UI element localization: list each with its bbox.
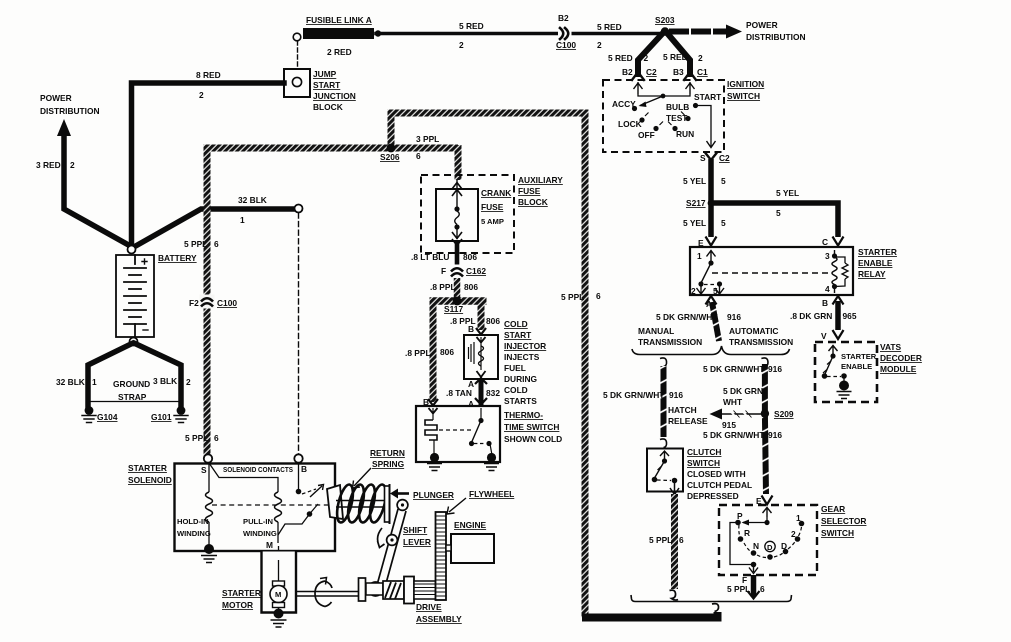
svg-text:AUTOMATIC: AUTOMATIC <box>729 326 778 336</box>
splice S203 <box>661 27 669 35</box>
svg-text:FUSE: FUSE <box>481 202 504 212</box>
svg-text:.8 DK GRN: .8 DK GRN <box>790 311 832 321</box>
svg-text:PLUNGER: PLUNGER <box>413 490 454 500</box>
terminal Y at V <box>833 330 844 339</box>
splice S217 <box>708 200 715 207</box>
dashed thick feed to power distribution arrow <box>672 29 726 35</box>
hook at clutch switch <box>660 439 667 448</box>
wire .8 PPL C162 to S117 <box>454 278 461 299</box>
svg-text:C1: C1 <box>697 67 708 77</box>
svg-text:WHT: WHT <box>723 397 743 407</box>
svg-text:2: 2 <box>791 529 796 539</box>
power distribution arrowhead (left) <box>57 119 71 136</box>
plunger end plate <box>385 486 390 522</box>
svg-text:5 RED: 5 RED <box>597 22 622 32</box>
svg-text:G101: G101 <box>151 412 172 422</box>
svg-text:WINDING: WINDING <box>243 529 277 538</box>
relay armature <box>701 263 711 283</box>
power distribution arrowhead <box>726 25 742 39</box>
terminal Y at B (exit) <box>833 296 844 305</box>
svg-text:P: P <box>737 511 743 521</box>
svg-text:STARTER: STARTER <box>128 463 167 473</box>
hold-in ground <box>204 544 214 554</box>
svg-text:FLYWHEEL: FLYWHEEL <box>469 489 514 499</box>
svg-text:A: A <box>468 399 474 409</box>
pin 5 arrow down <box>715 284 724 294</box>
battery top node <box>128 246 136 254</box>
svg-text:5: 5 <box>713 286 718 296</box>
ground G104 <box>85 406 94 415</box>
svg-text:BLOCK: BLOCK <box>313 102 343 112</box>
svg-text:806: 806 <box>440 347 454 357</box>
svg-text:B: B <box>468 324 474 334</box>
wire 5 YEL branch to relay C <box>711 203 838 237</box>
svg-text:STARTS: STARTS <box>504 396 537 406</box>
svg-text:WINDING: WINDING <box>177 529 211 538</box>
svg-text:GEAR: GEAR <box>821 504 845 514</box>
switch arm <box>480 408 482 419</box>
motor ground <box>274 609 284 619</box>
svg-text:1: 1 <box>796 513 801 523</box>
plunger dashed actuation line <box>212 504 330 506</box>
wire S203 to B3/C1 terminal <box>667 33 690 74</box>
svg-text:2: 2 <box>691 286 696 296</box>
svg-text:2: 2 <box>644 53 649 63</box>
wire .8 PPL S117 to injector (hatched) <box>478 299 485 330</box>
svg-text:FUEL: FUEL <box>504 363 526 373</box>
svg-text:5: 5 <box>721 176 726 186</box>
return spring pointer <box>353 468 372 488</box>
hook automatic branch <box>761 358 768 367</box>
svg-text:CLOSED WITH: CLOSED WITH <box>687 469 746 479</box>
svg-text:5 DK GRN/WHT: 5 DK GRN/WHT <box>656 312 718 322</box>
svg-text:VATS: VATS <box>880 342 902 352</box>
flywheel pointer <box>447 498 466 514</box>
svg-text:CRANK: CRANK <box>481 188 511 198</box>
svg-text:5 DK GRN/WHT: 5 DK GRN/WHT <box>703 364 765 374</box>
svg-text:HOLD-IN: HOLD-IN <box>177 517 209 526</box>
svg-text:F: F <box>441 266 446 276</box>
svg-text:915: 915 <box>722 420 736 430</box>
svg-text:C100: C100 <box>217 298 237 308</box>
svg-text:6: 6 <box>679 535 684 545</box>
svg-text:5 DK GRN/: 5 DK GRN/ <box>723 386 766 396</box>
svg-text:2 RED: 2 RED <box>327 47 352 57</box>
wire 5 DK GRN/WHT from relay A <box>712 302 719 341</box>
svg-text:START: START <box>313 80 341 90</box>
svg-text:E: E <box>698 238 704 248</box>
dashed arc through positions <box>739 525 802 558</box>
start wire to S/C2 <box>696 106 712 148</box>
svg-text:6: 6 <box>416 151 421 161</box>
dashed actuation line <box>712 272 830 274</box>
svg-text:STARTER: STARTER <box>222 588 261 598</box>
wire 5 PPL long right drop (hatched) <box>582 113 589 618</box>
fuse element <box>456 180 458 208</box>
svg-text:SOLENOID: SOLENOID <box>128 475 172 485</box>
parallel resistor <box>835 257 846 287</box>
fusible link left terminal circle <box>293 33 301 41</box>
svg-text:M: M <box>275 590 281 599</box>
svg-text:BATTERY: BATTERY <box>158 253 197 263</box>
svg-text:SWITCH: SWITCH <box>727 91 760 101</box>
relay coil <box>832 253 837 258</box>
svg-text:MODULE: MODULE <box>880 364 917 374</box>
feed bar between terminals <box>638 94 690 96</box>
svg-text:.8 TAN: .8 TAN <box>446 388 472 398</box>
wire S203 to B2/C2 terminal <box>638 33 663 74</box>
svg-text:V: V <box>821 331 827 341</box>
svg-text:5 PPL: 5 PPL <box>185 433 208 443</box>
svg-text:JUMP: JUMP <box>313 69 337 79</box>
terminal Y at C <box>833 237 844 246</box>
svg-text:3 BLK: 3 BLK <box>153 376 177 386</box>
svg-text:916: 916 <box>669 390 683 400</box>
terminal Y at injector B <box>476 328 486 335</box>
svg-text:916: 916 <box>768 364 782 374</box>
svg-text:5: 5 <box>721 218 726 228</box>
pin 1 arrow <box>707 250 716 261</box>
connector F/C162 <box>450 265 465 279</box>
svg-text:S209: S209 <box>774 409 794 419</box>
S terminal circle <box>204 454 212 462</box>
svg-text:TEST: TEST <box>666 113 688 123</box>
svg-text:806: 806 <box>486 316 500 326</box>
actuation dashed link <box>439 429 471 431</box>
svg-text:START: START <box>694 92 722 102</box>
svg-text:R: R <box>744 528 750 538</box>
battery body <box>116 255 154 337</box>
svg-text:HATCH: HATCH <box>668 405 697 415</box>
svg-text:LEVER: LEVER <box>403 537 431 547</box>
wire drop into aux fuse block (hatched) <box>455 145 462 180</box>
svg-text:1: 1 <box>697 251 702 261</box>
svg-text:OFF: OFF <box>638 130 655 140</box>
pull-in winding <box>275 492 282 522</box>
svg-text:2: 2 <box>459 40 464 50</box>
svg-text:INJECTOR: INJECTOR <box>504 341 546 351</box>
svg-text:S203: S203 <box>655 15 675 25</box>
wire 5 PPL battery column (hatched) <box>204 148 211 456</box>
svg-text:START: START <box>504 330 532 340</box>
circled D indicator <box>765 541 775 551</box>
svg-text:6: 6 <box>760 584 765 594</box>
svg-text:2: 2 <box>597 40 602 50</box>
svg-text:832: 832 <box>486 388 500 398</box>
wire 5 PPL gear selector F to bus <box>751 575 757 597</box>
svg-text:STARTER: STARTER <box>841 352 877 361</box>
svg-text:5 AMP: 5 AMP <box>481 217 504 226</box>
dashed drop from fusible link to jump start block <box>297 41 299 76</box>
wire 3 RED to power distribution (left) <box>64 131 133 248</box>
svg-text:5 RED: 5 RED <box>663 52 688 62</box>
svg-text:TIME SWITCH: TIME SWITCH <box>504 422 559 432</box>
wire 5 DK GRN/WHT S209 down to gear selector <box>765 414 766 494</box>
svg-text:4: 4 <box>825 284 830 294</box>
rotor arm to ACCY <box>640 96 663 106</box>
thick feed bar to starter circuit <box>582 612 718 618</box>
svg-text:JUNCTION: JUNCTION <box>313 91 356 101</box>
svg-text:S206: S206 <box>380 152 400 162</box>
connector F2/C100 on 5 PPL wire <box>200 295 215 309</box>
wire 3 PPL horizontal to S206 (hatched) <box>204 145 459 152</box>
pin 2 arrow down <box>697 284 706 294</box>
svg-text:FUSIBLE LINK A: FUSIBLE LINK A <box>306 15 372 25</box>
svg-text:2: 2 <box>698 53 703 63</box>
pin 3 / 4 stubs <box>834 250 836 293</box>
svg-text:POWER: POWER <box>40 93 72 103</box>
S internal wiring <box>209 463 278 492</box>
svg-text:B3: B3 <box>673 67 684 77</box>
svg-text:BLOCK: BLOCK <box>518 197 548 207</box>
position dots <box>632 106 637 111</box>
hold-in winding <box>206 492 213 522</box>
svg-text:S: S <box>700 153 706 163</box>
wire 5 DK GRN/WHT manual branch <box>661 366 667 437</box>
terminal Y at E <box>706 237 717 246</box>
terminal arrows into switch <box>634 82 643 94</box>
svg-text:SHOWN COLD: SHOWN COLD <box>504 434 562 444</box>
svg-text:ACCY: ACCY <box>612 99 636 109</box>
svg-text:3 RED: 3 RED <box>36 160 61 170</box>
svg-text:S217: S217 <box>686 198 706 208</box>
svg-text:B2: B2 <box>558 13 569 23</box>
B terminal circle <box>294 454 302 462</box>
svg-text:LOCK: LOCK <box>618 119 642 129</box>
position dots on arc <box>738 536 744 542</box>
wire 5 PPL clutch switch to bus (hatched) <box>671 494 678 589</box>
svg-text:STRAP: STRAP <box>118 392 147 402</box>
svg-text:.8 PPL: .8 PPL <box>405 348 431 358</box>
svg-text:COLD: COLD <box>504 385 528 395</box>
wire 5 PPL top horizontal (hatched) <box>388 110 589 117</box>
svg-text:B: B <box>423 397 429 407</box>
terminal Y at E <box>762 496 773 505</box>
jump start junction block <box>284 69 310 97</box>
breakaway squiggle to feed bar <box>712 604 719 612</box>
crank fuse box <box>436 189 478 241</box>
svg-text:GROUND: GROUND <box>113 379 150 389</box>
svg-text:C100: C100 <box>556 40 576 50</box>
wire 5 DK GRN/WHT automatic branch to S209 <box>762 364 768 414</box>
fusible link A body <box>303 28 374 39</box>
svg-text:5 YEL: 5 YEL <box>683 176 706 186</box>
B contact <box>298 463 300 489</box>
svg-text:B: B <box>301 464 307 474</box>
rotation arrow on shaft <box>315 581 332 607</box>
terminal Y at S/C2 <box>705 153 717 161</box>
wire .8 PPL S117 to thermo switch (hatched) <box>430 299 437 402</box>
svg-text:SWITCH: SWITCH <box>821 528 854 538</box>
wire 8 RED battery to jump start block <box>132 83 285 245</box>
svg-text:5: 5 <box>776 208 781 218</box>
wire riser S206 up (hatched) <box>388 113 395 151</box>
svg-text:6: 6 <box>214 433 219 443</box>
svg-text:RUN: RUN <box>676 129 694 139</box>
splice S206 <box>387 144 396 153</box>
svg-text:INJECTS: INJECTS <box>504 352 540 362</box>
splice S117 <box>430 297 487 305</box>
plunger head block <box>327 485 343 519</box>
svg-text:2: 2 <box>70 160 75 170</box>
svg-text:BULB: BULB <box>666 102 689 112</box>
terminal Y at B3/C1 <box>684 72 696 80</box>
splice S209 <box>761 409 769 417</box>
svg-text:ENABLE: ENABLE <box>858 258 893 268</box>
ground G101 <box>177 406 186 415</box>
svg-text:CLUTCH: CLUTCH <box>687 447 721 457</box>
svg-text:CLUTCH PEDAL: CLUTCH PEDAL <box>687 480 752 490</box>
svg-text:N: N <box>753 541 759 551</box>
svg-text:5 PPL: 5 PPL <box>184 239 207 249</box>
thermo ground right <box>487 453 496 462</box>
svg-text:TRANSMISSION: TRANSMISSION <box>638 337 702 347</box>
thermo ground left <box>430 453 439 462</box>
svg-text:5 DK GRN/WHT: 5 DK GRN/WHT <box>603 390 665 400</box>
P to F route <box>730 523 754 565</box>
svg-text:S: S <box>201 465 207 475</box>
svg-text:ENABLE: ENABLE <box>841 362 872 371</box>
svg-text:6: 6 <box>596 291 601 301</box>
svg-text:5 YEL: 5 YEL <box>776 188 799 198</box>
svg-text:THERMO-: THERMO- <box>504 410 543 420</box>
svg-text:916: 916 <box>768 430 782 440</box>
svg-text:1: 1 <box>240 215 245 225</box>
wire .8 LT BLU fuse to C162 <box>455 241 460 265</box>
hatch release arrowhead <box>710 409 723 420</box>
junction dot at fusible link right end <box>375 30 381 36</box>
motor shaft <box>296 592 362 597</box>
svg-text:806: 806 <box>463 252 477 262</box>
terminal Y at A (exit) <box>706 296 717 305</box>
ignition switch box (dashed) <box>603 80 724 152</box>
svg-text:S117: S117 <box>444 304 463 314</box>
terminal Y at thermo B <box>428 399 438 406</box>
svg-text:8 RED: 8 RED <box>196 70 221 80</box>
svg-text:E: E <box>756 496 762 506</box>
moving contact arm <box>302 489 316 494</box>
svg-text:32 BLK: 32 BLK <box>238 195 267 205</box>
plunger pointer arrow <box>398 492 409 495</box>
wire 5 YEL ignition to relay E <box>708 159 714 237</box>
wire .8 DK GRN relay B to VATS V <box>835 301 841 330</box>
svg-text:F2: F2 <box>189 298 199 308</box>
tick marks beside dots <box>645 112 685 126</box>
svg-text:5 PPL: 5 PPL <box>727 584 750 594</box>
svg-text:ASSEMBLY: ASSEMBLY <box>416 614 462 624</box>
svg-text:916: 916 <box>727 312 741 322</box>
svg-text:D: D <box>767 543 773 552</box>
svg-text:3 PPL: 3 PPL <box>416 134 439 144</box>
svg-text:PULL-IN: PULL-IN <box>243 517 273 526</box>
svg-text:5 DK GRN/WHT: 5 DK GRN/WHT <box>703 430 765 440</box>
wire 32 BLK battery to open terminal <box>133 209 295 248</box>
hatch release tap wire 915 <box>722 413 762 415</box>
heater element <box>425 420 437 440</box>
M terminal <box>274 551 282 559</box>
hook manual branch <box>660 358 667 367</box>
svg-text:MANUAL: MANUAL <box>638 326 674 336</box>
svg-text:RETURN: RETURN <box>370 448 405 458</box>
svg-text:TRANSMISSION: TRANSMISSION <box>729 337 793 347</box>
svg-text:DECODER: DECODER <box>880 353 922 363</box>
svg-text:RELEASE: RELEASE <box>668 416 708 426</box>
svg-text:IGNITION: IGNITION <box>727 79 764 89</box>
svg-text:2: 2 <box>199 90 204 100</box>
svg-text:MOTOR: MOTOR <box>222 600 253 610</box>
svg-text:G104: G104 <box>97 412 118 422</box>
svg-text:M: M <box>266 540 273 550</box>
svg-text:.8 LT BLU: .8 LT BLU <box>411 252 449 262</box>
svg-text:STARTER: STARTER <box>858 247 897 257</box>
svg-text:SHIFT: SHIFT <box>403 525 428 535</box>
svg-text:1: 1 <box>92 377 97 387</box>
wire .8 TAN injector A to thermo A <box>479 379 484 405</box>
svg-text:DISTRIBUTION: DISTRIBUTION <box>746 32 806 42</box>
svg-text:SELECTOR: SELECTOR <box>821 516 866 526</box>
svg-text:ENGINE: ENGINE <box>454 520 487 530</box>
svg-text:B2: B2 <box>622 67 633 77</box>
connector B2/C100 symbol <box>558 27 572 41</box>
svg-text:.8 PPL: .8 PPL <box>430 282 456 292</box>
svg-text:C162: C162 <box>466 266 486 276</box>
svg-text:C2: C2 <box>646 67 657 77</box>
svg-text:B: B <box>822 298 828 308</box>
svg-text:3: 3 <box>825 251 830 261</box>
svg-text:POWER: POWER <box>746 20 778 30</box>
svg-text:965: 965 <box>843 311 857 321</box>
svg-text:5 PPL: 5 PPL <box>561 292 584 302</box>
svg-text:806: 806 <box>464 282 478 292</box>
svg-text:2: 2 <box>186 377 191 387</box>
wire 5 RED from fusible link to S203 <box>376 32 660 36</box>
svg-text:SPRING: SPRING <box>372 459 404 469</box>
svg-text:DRIVE: DRIVE <box>416 602 442 612</box>
svg-text:COLD: COLD <box>504 319 528 329</box>
svg-text:RELAY: RELAY <box>858 269 886 279</box>
ground strap left arm 32 BLK <box>88 344 132 407</box>
battery bottom node <box>130 338 138 346</box>
svg-text:SWITCH: SWITCH <box>687 458 720 468</box>
svg-text:AUXILIARY: AUXILIARY <box>518 175 563 185</box>
curved motion arrow <box>378 528 385 548</box>
svg-text:6: 6 <box>214 239 219 249</box>
svg-text:5 YEL: 5 YEL <box>683 218 706 228</box>
breakaway squiggle at clutch wire <box>670 590 679 600</box>
svg-text:5 RED: 5 RED <box>459 21 484 31</box>
dashed drop to solenoid B terminal <box>298 213 300 454</box>
svg-text:C2: C2 <box>719 153 730 163</box>
svg-text:DISTRIBUTION: DISTRIBUTION <box>40 106 100 116</box>
svg-text:32 BLK: 32 BLK <box>56 377 85 387</box>
auxiliary fuse block (dashed) <box>421 175 514 253</box>
svg-text:DEPRESSED: DEPRESSED <box>687 491 739 501</box>
brace split manual/automatic <box>632 346 790 355</box>
strap bottom line <box>90 401 179 403</box>
svg-text:5 RED: 5 RED <box>608 53 633 63</box>
svg-text:C: C <box>822 237 828 247</box>
svg-text:FUSE: FUSE <box>518 186 541 196</box>
wiper feed to P <box>743 522 767 524</box>
svg-text:DURING: DURING <box>504 374 537 384</box>
svg-text:5 PPL: 5 PPL <box>649 535 672 545</box>
terminal Y at B2/C2 <box>632 72 644 80</box>
open terminal circle of 32 BLK wire <box>295 205 303 213</box>
bus line <box>631 595 792 602</box>
svg-text:SOLENOID CONTACTS: SOLENOID CONTACTS <box>223 465 293 474</box>
ground strap right arm 3 BLK <box>135 344 181 407</box>
svg-text:D: D <box>781 541 787 551</box>
